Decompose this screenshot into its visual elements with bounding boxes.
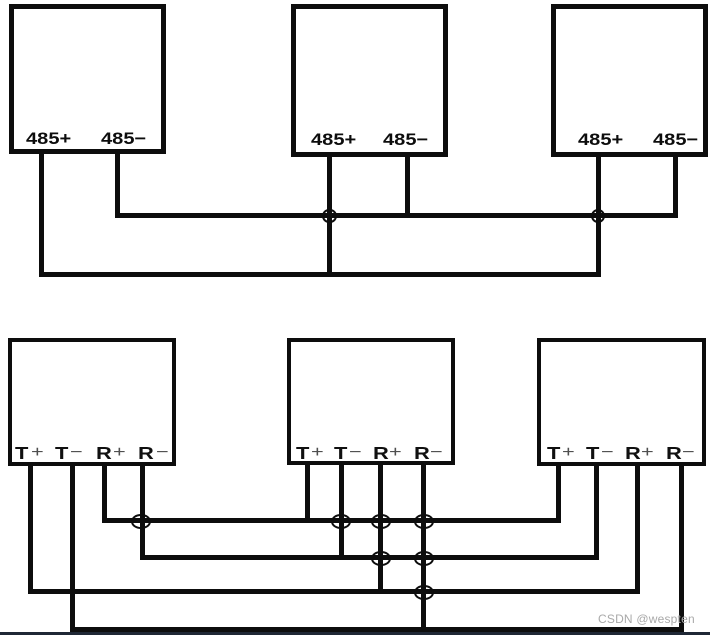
crossover junction K4 (D2.R- over net1) (414, 514, 435, 529)
pin label T+ (D2) (296, 443, 309, 464)
crossover junction K3 (D2.R+ over net1) (371, 514, 392, 529)
wire net2 horizontal (D1.R- - D2.T- - D3.T-) (140, 555, 599, 560)
wire 485- bus (horizontal) (115, 213, 678, 218)
device box U1 (9, 4, 167, 154)
wire U2 485+ drop (327, 157, 332, 277)
pin label T+ (D3) (547, 443, 560, 464)
pin label T+ (D1) (15, 443, 28, 464)
pin label R+ (D3) (625, 443, 641, 464)
wire D1 T- drop (70, 466, 75, 633)
bottom bar (0, 632, 710, 635)
wire D2 R+ drop (378, 465, 383, 594)
device box D1 (8, 338, 176, 466)
pin label 485- (U2) (383, 130, 428, 150)
pin label R+ (D2) (373, 443, 389, 464)
pin label T- (D2) (334, 443, 347, 464)
pin label T- (D3) (586, 443, 599, 464)
wire D1 T+ drop (28, 466, 33, 594)
wire net4 horizontal (D1.T- - D2.R- - D3.R-) (70, 627, 684, 632)
wire D1 R- drop (140, 466, 145, 561)
wire D3 R- drop (679, 466, 684, 633)
wire D3 T- drop (594, 466, 599, 561)
device box D2 (287, 338, 455, 466)
wire U3 485- drop (673, 157, 678, 218)
wire net3 horizontal (D1.T+ - D2.R+ - D3.R+) (28, 589, 640, 594)
wire 485+ bus (horizontal) (39, 272, 601, 277)
wire U1 485+ drop (39, 154, 44, 277)
wire D3 T+ drop (556, 466, 561, 524)
wire D2 T+ drop (305, 465, 310, 523)
wire U1 485- drop (115, 154, 120, 218)
pin label T- (D1) (55, 443, 68, 464)
device box U3 (551, 4, 709, 157)
watermark (598, 612, 695, 626)
device box U2 (291, 4, 448, 157)
crossover junction J1 (U2 485+ over 485- bus) (322, 209, 337, 224)
pin label R- (D1) (138, 443, 154, 464)
pin label 485- (U1) (101, 129, 146, 149)
wire U2 485- drop (405, 157, 410, 218)
pin label 485+ (U3) (578, 130, 623, 150)
pin label R- (D2) (414, 443, 430, 464)
pin label R- (D3) (666, 443, 682, 464)
crossover junction J2 (U3 485+ over 485- bus) (591, 209, 606, 224)
pin label 485+ (U1) (26, 129, 71, 149)
device box D3 (537, 338, 706, 466)
pin label R+ (D1) (96, 443, 112, 464)
wire D3 R+ drop (635, 466, 640, 594)
wire U3 485+ drop (596, 157, 601, 277)
wire D1 R+ drop (102, 466, 107, 524)
crossover junction K1 (D1.R- over net1) (131, 514, 152, 529)
wire D2 T- drop (339, 465, 344, 560)
wire D2 R- drop (421, 465, 426, 632)
pin label 485+ (U2) (311, 130, 356, 150)
crossover junction K5 (D2.R+ over net2) (371, 551, 392, 566)
wire net1 horizontal (D1.R+ - D2.T+ - D3.T+) (102, 518, 561, 523)
pin label 485- (U3) (653, 130, 698, 150)
crossover junction K6 (D2.R- over net2) (414, 551, 435, 566)
crossover junction K2 (D2.T- over net1) (331, 514, 352, 529)
crossover junction K7 (D2.R- over net3) (414, 585, 435, 600)
